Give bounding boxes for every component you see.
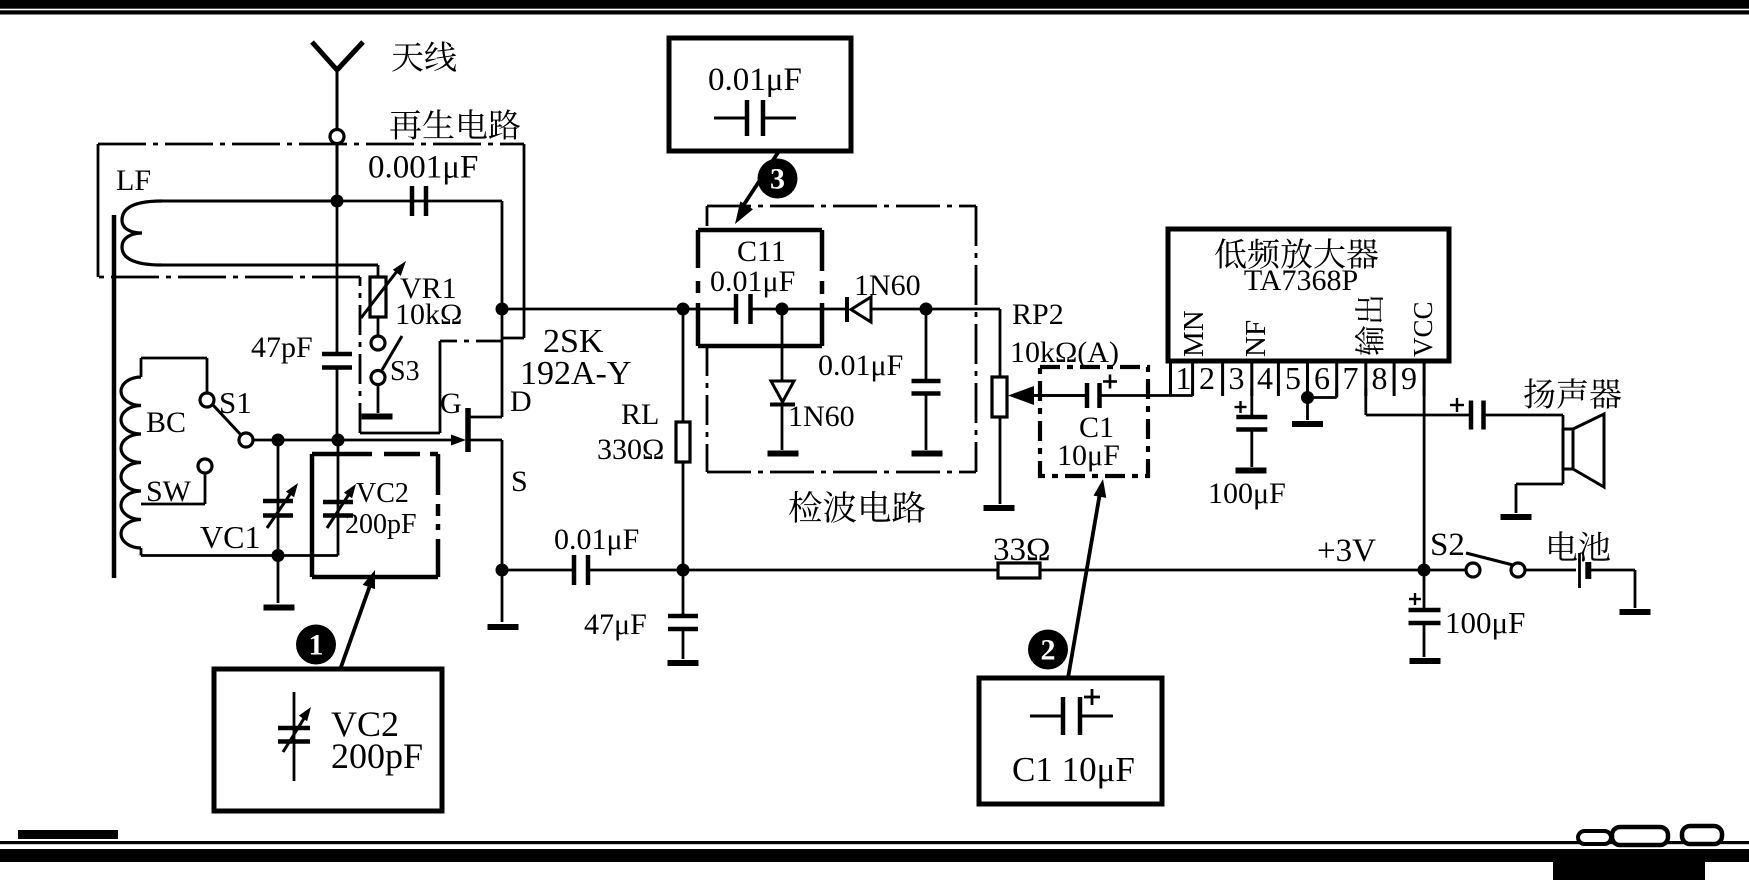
wire coil bottom — [141, 554, 278, 557]
resistor RL 330 — [676, 422, 690, 462]
VCC wire — [1423, 388, 1426, 570]
callout3 cap lead — [714, 117, 747, 120]
D2 cathode bar — [770, 403, 795, 407]
arrow 1 — [341, 577, 373, 667]
ground speaker — [1501, 514, 1532, 520]
plus 100uF — [1409, 598, 1421, 600]
svg-text:3: 3 — [1229, 360, 1245, 396]
regeneration circuit dashed box 再生电路 — [98, 143, 524, 146]
ground RP2 — [984, 505, 1015, 511]
D2 top lead — [781, 309, 784, 381]
FET drain lead — [470, 416, 502, 419]
output wire — [1366, 414, 1471, 417]
label 电池 — [1549, 531, 1610, 561]
svg-text:0.01μF: 0.01μF — [708, 62, 802, 98]
filter cap top lead — [925, 309, 928, 380]
RP2 wiper arrow — [1033, 394, 1087, 397]
svg-text:200pF: 200pF — [345, 509, 417, 540]
svg-text:+3V: +3V — [1317, 533, 1376, 569]
ground 47uF — [668, 660, 699, 666]
svg-text:100μF: 100μF — [1208, 477, 1286, 510]
label 检波电路 — [789, 491, 925, 523]
rail left segment — [502, 569, 574, 572]
callout box C1 10uF — [979, 678, 1162, 804]
ground pin5/6 — [1292, 421, 1323, 427]
ground S3 — [362, 414, 393, 420]
svg-text:RL: RL — [621, 398, 659, 431]
svg-text:C11: C11 — [737, 235, 786, 268]
wire down to drain node — [501, 201, 504, 309]
detection circuit dashed box 检波电路 — [707, 205, 976, 208]
battery long plate — [1578, 553, 1581, 588]
junction filter — [920, 303, 933, 316]
ground 100uF — [1410, 658, 1441, 664]
inductor LF — [122, 201, 162, 265]
junction pin5/6 — [1301, 391, 1314, 404]
svg-text:33Ω: 33Ω — [993, 532, 1051, 568]
potentiometer RP2 body — [992, 377, 1007, 417]
svg-text:MN: MN — [1178, 310, 1210, 357]
resistor 33 — [998, 563, 1040, 578]
wire LF bottom to VR1 — [158, 264, 378, 267]
junction source/rail — [496, 564, 509, 577]
speaker 扬声器 — [1562, 415, 1565, 484]
svg-text:10μF: 10μF — [1057, 439, 1120, 472]
bottom border bars — [18, 830, 118, 839]
wire to 0.001uF — [337, 200, 502, 203]
svg-text:10kΩ(A): 10kΩ(A) — [1010, 336, 1119, 369]
svg-text:100μF: 100μF — [1445, 605, 1525, 640]
wire LF top to antenna junction — [158, 200, 337, 203]
svg-text:VC2: VC2 — [356, 478, 409, 509]
S2 blade — [1466, 553, 1513, 565]
svg-text:200pF: 200pF — [331, 736, 423, 776]
wire to ground — [501, 570, 504, 622]
capacitor 47uF — [668, 614, 698, 619]
svg-text:1: 1 — [1176, 360, 1192, 396]
wire down to RP2 — [999, 309, 1002, 377]
VC2 box (thick, partly dashed) — [312, 452, 372, 457]
capacitor 100uF pin3 — [1236, 415, 1267, 420]
gate wire — [251, 439, 452, 442]
inductor BC/SW — [121, 377, 141, 548]
svg-text:G: G — [440, 387, 462, 420]
callout3 capacitor — [745, 100, 750, 136]
rail middle segment — [588, 569, 998, 572]
wire VC1 to VC2 — [278, 554, 338, 557]
ground filter cap — [912, 451, 943, 457]
svg-text:S3: S3 — [390, 356, 420, 387]
svg-text:0.001μF: 0.001μF — [368, 150, 478, 186]
svg-text:0.01μF: 0.01μF — [818, 349, 903, 382]
svg-text:8: 8 — [1372, 360, 1388, 396]
arrow 2 — [1068, 487, 1101, 678]
FET channel bar — [465, 408, 471, 452]
op-amp U1 TA7368P low frequency amplifier — [1168, 229, 1449, 361]
wire BC top — [141, 357, 207, 360]
gate arrow — [451, 435, 466, 446]
svg-text:5: 5 — [1285, 360, 1301, 396]
junction diode branch — [776, 303, 789, 316]
wire SW tap — [204, 473, 207, 504]
svg-text:0.01μF: 0.01μF — [554, 523, 639, 556]
VC1 stem — [277, 440, 280, 603]
svg-text:S2: S2 — [1430, 527, 1465, 563]
plus C1 — [1103, 380, 1117, 383]
RL bottom lead — [682, 462, 685, 570]
ground source — [488, 624, 519, 630]
wire S3 to ground — [377, 384, 380, 413]
numbered circle 1 — [296, 625, 336, 665]
rail +3V — [1040, 569, 1466, 572]
svg-text:2: 2 — [1041, 634, 1056, 667]
VC1 arrow — [267, 487, 295, 528]
capacitor 0.001uF — [410, 186, 415, 216]
wire S2 to battery — [1525, 569, 1576, 572]
svg-text:7: 7 — [1343, 360, 1359, 396]
VC2 arrow — [327, 488, 353, 528]
junction RL — [677, 303, 690, 316]
battery short plate — [1585, 562, 1591, 579]
svg-text:330Ω: 330Ω — [597, 433, 664, 466]
svg-text:S1: S1 — [219, 385, 252, 420]
wire antenna to junction — [336, 143, 339, 201]
top border bar — [0, 0, 1749, 9]
wire VR1 to S3 — [377, 317, 380, 336]
wire drain to C11 — [502, 308, 736, 311]
svg-text:192A-Y: 192A-Y — [520, 355, 631, 392]
svg-text:S: S — [511, 465, 528, 498]
wire diode to RP2 — [871, 308, 1000, 311]
wire 47pF to gate node — [336, 368, 339, 441]
100uF top lead — [1423, 570, 1426, 608]
ground VC1 — [264, 605, 295, 611]
ferrite core — [112, 215, 117, 578]
label 再生电路 — [390, 109, 520, 139]
junction gate/VC2 — [332, 434, 345, 447]
junction antenna/LF — [331, 195, 344, 208]
pin5 lead — [1306, 388, 1309, 420]
antenna — [312, 42, 337, 70]
S2 contact left — [1466, 563, 1480, 577]
wire C1 to pin1 — [1100, 394, 1193, 397]
svg-text:47pF: 47pF — [251, 331, 313, 364]
junction 47uF — [677, 564, 690, 577]
wire to speaker — [1484, 414, 1564, 417]
svg-text:1: 1 — [309, 629, 324, 662]
D2 bottom lead — [781, 405, 784, 450]
capacitor 0.01uF rail — [572, 555, 577, 585]
decorative logo marks bottom right — [1578, 831, 1611, 844]
arrow 3 — [743, 151, 779, 206]
svg-text:VCC: VCC — [1408, 301, 1438, 357]
junction S1/VC1 — [272, 434, 285, 447]
SW tap terminal — [198, 459, 212, 473]
svg-text:1N60: 1N60 — [854, 269, 921, 302]
S1 blade — [213, 405, 241, 435]
capacitor 47pF — [322, 352, 352, 357]
capacitor 0.01uF detector — [912, 379, 941, 384]
VR1 arrow — [361, 266, 401, 318]
capacitor C11 — [734, 294, 739, 324]
svg-text:10kΩ: 10kΩ — [395, 298, 462, 331]
switch S3 contact top — [371, 336, 385, 350]
svg-text:VC1: VC1 — [200, 519, 260, 555]
callout2 capacitor — [1030, 715, 1063, 718]
47uF top lead — [682, 570, 685, 615]
D1 cathode bar — [845, 297, 849, 322]
numbered circle 3 — [758, 159, 798, 199]
callout box 0.01uF — [669, 38, 851, 151]
callout box VC2 200pF — [214, 669, 442, 811]
capacitor 100uF rail — [1409, 608, 1441, 613]
svg-text:TA7368P: TA7368P — [1244, 264, 1358, 297]
VC2 stem — [337, 440, 340, 556]
label 天线 — [392, 41, 456, 71]
svg-text:3: 3 — [770, 163, 785, 196]
svg-text:9: 9 — [1401, 360, 1417, 396]
wire antenna down to 47pF — [336, 143, 339, 353]
junction drain — [496, 303, 509, 316]
pin dividers — [1169, 361, 1172, 396]
svg-text:LF: LF — [116, 164, 151, 197]
svg-text:BC: BC — [146, 406, 186, 439]
RP2 bottom lead — [999, 417, 1002, 504]
callout1 variable capacitor — [293, 692, 296, 781]
switch S3 contact bottom — [371, 371, 385, 385]
S3 blade — [382, 336, 402, 370]
antenna terminal — [330, 130, 344, 144]
plus pin3 cap — [1235, 406, 1247, 408]
RL top lead — [682, 309, 685, 422]
svg-text:C1 10μF: C1 10μF — [1012, 750, 1135, 789]
pin7 output lead — [1364, 388, 1367, 415]
ground pin3 cap — [1236, 468, 1267, 474]
svg-text:RP2: RP2 — [1012, 298, 1064, 331]
junction VC1/coil — [272, 549, 285, 562]
label 输出 rotated — [1355, 297, 1384, 356]
svg-text:4: 4 — [1257, 360, 1273, 396]
wire C11 to diode — [751, 308, 848, 311]
svg-text:1N60: 1N60 — [788, 400, 855, 433]
label 扬声器 — [1524, 378, 1621, 408]
plus output cap — [1450, 404, 1464, 406]
svg-text:47μF: 47μF — [584, 608, 647, 641]
label 低频放大器 — [1215, 238, 1378, 269]
potentiometer VR1 body — [370, 277, 386, 317]
pin3 lead — [1250, 388, 1253, 416]
C11 box (thick) — [698, 228, 822, 233]
ground battery — [1620, 609, 1651, 615]
S1 moving contact — [239, 433, 253, 447]
capacitor output — [1469, 401, 1474, 430]
C1 dashed box — [1040, 367, 1148, 476]
svg-text:6: 6 — [1314, 360, 1330, 396]
numbered circle 2 — [1028, 630, 1068, 670]
svg-text:NF: NF — [1240, 320, 1272, 357]
ground D2 — [768, 451, 799, 457]
svg-text:0.01μF: 0.01μF — [710, 265, 795, 298]
svg-text:2: 2 — [1199, 360, 1215, 396]
junction VCC rail — [1418, 564, 1431, 577]
S1 fixed contact — [200, 393, 214, 407]
capacitor C1 — [1085, 383, 1090, 408]
FET source lead — [470, 439, 502, 442]
S2 contact right — [1511, 563, 1525, 577]
